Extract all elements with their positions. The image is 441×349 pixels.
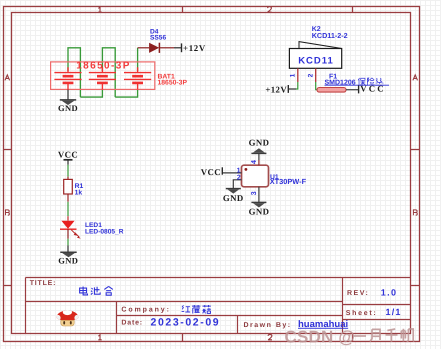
svg-text:GND: GND xyxy=(249,206,270,216)
pin 3 wire (bottom) xyxy=(258,187,260,203)
红蘑菇 (company) xyxy=(182,305,211,314)
wire VCC to R1 xyxy=(67,165,69,177)
svg-text:18650-3P: 18650-3P xyxy=(158,80,188,87)
svg-text:CSDN @: CSDN @ xyxy=(285,328,356,347)
wire pin1 to +12V xyxy=(296,82,298,89)
svg-text:+12V: +12V xyxy=(265,85,287,95)
svg-text:REV:: REV: xyxy=(347,290,369,297)
pin1 dot marker xyxy=(245,168,248,171)
ground GND (U1 top) xyxy=(249,137,270,153)
svg-text:KCD11-2-2: KCD11-2-2 xyxy=(312,31,348,40)
svg-text:2023-02-09: 2023-02-09 xyxy=(151,317,221,329)
power flag VCC (at fuse) xyxy=(359,84,386,94)
电池仓 (title) xyxy=(80,286,113,295)
svg-text:XT30PW-F: XT30PW-F xyxy=(270,177,307,186)
svg-text:18650-3P: 18650-3P xyxy=(76,60,131,71)
wire fuse to VCC xyxy=(346,89,359,91)
power flag VCC (at R1) xyxy=(58,149,78,164)
wire bottom rail to cell3 xyxy=(115,90,137,98)
svg-text:2: 2 xyxy=(308,73,315,77)
title block xyxy=(26,278,411,334)
LED LED1 xyxy=(60,216,124,239)
connector U1 XT30PW-F xyxy=(222,154,306,203)
svg-text:TITLE:: TITLE: xyxy=(30,280,57,287)
svg-text:3: 3 xyxy=(251,191,258,195)
svg-text:Company:: Company: xyxy=(121,306,170,313)
svg-text:GND: GND xyxy=(58,256,78,266)
svg-text:Sheet:: Sheet: xyxy=(346,309,378,317)
svg-text:4: 4 xyxy=(251,160,258,164)
ground GND (LED) xyxy=(58,252,78,265)
switch K2 KCD11 xyxy=(289,26,347,82)
pin 1 xyxy=(297,68,299,82)
保险丝 (fuse label) xyxy=(358,78,383,86)
svg-text:1: 1 xyxy=(237,167,241,174)
svg-text:1k: 1k xyxy=(75,189,83,196)
power flag VCC (at U1) xyxy=(201,167,223,177)
battery cell plates xyxy=(54,67,151,89)
svg-text:+12V: +12V xyxy=(183,43,206,53)
svg-text:GND: GND xyxy=(249,137,270,147)
battery BAT1 wires xyxy=(68,48,138,97)
pin 2 wire xyxy=(233,180,241,189)
resistor R1 xyxy=(64,177,84,202)
power flag +12V (at diode) xyxy=(174,43,206,53)
svg-text:1/1: 1/1 xyxy=(386,307,402,317)
wire pin2 to fuse xyxy=(316,82,317,90)
pin 1 wire xyxy=(222,172,241,174)
fuse F1 xyxy=(317,73,389,92)
battery outline box xyxy=(51,62,155,90)
svg-text:GND: GND xyxy=(223,193,244,203)
wire battery negative to ground xyxy=(67,90,69,100)
diode D4 xyxy=(138,28,174,53)
wire cell3 top to diode corner xyxy=(137,48,139,71)
wire cell2 top rail xyxy=(102,48,115,97)
svg-text:2: 2 xyxy=(237,174,241,181)
svg-text:1.0: 1.0 xyxy=(381,287,398,297)
pin 4 wire (top) xyxy=(258,154,260,160)
company logo mushroom xyxy=(55,309,80,326)
wire bottom rail to cell2 xyxy=(80,90,102,98)
ground GND (U1 pin2) xyxy=(223,189,244,203)
svg-text:GND: GND xyxy=(58,103,78,113)
power flag +12V (at switch) xyxy=(265,85,288,95)
watermark CSDN @一月千帆 xyxy=(285,328,415,347)
ground GND (battery) xyxy=(58,100,78,113)
battery BAT1 18650-3P xyxy=(51,60,188,89)
pin 2 xyxy=(315,68,317,82)
svg-text:1: 1 xyxy=(290,73,297,77)
wire R1 to LED1 xyxy=(67,202,69,216)
svg-text:KCD11: KCD11 xyxy=(298,55,334,66)
wire LED to ground xyxy=(67,239,69,246)
svg-text:VCC: VCC xyxy=(201,167,221,177)
LED arrows xyxy=(71,230,80,239)
ground GND (U1 bottom) xyxy=(249,202,270,216)
wire top rail cell1-cell2 xyxy=(68,48,80,97)
svg-text:SS56: SS56 xyxy=(150,35,166,42)
svg-text:LED-0805_R: LED-0805_R xyxy=(85,229,124,236)
svg-text:Date:: Date: xyxy=(121,319,143,326)
svg-text:VCC: VCC xyxy=(58,149,78,159)
